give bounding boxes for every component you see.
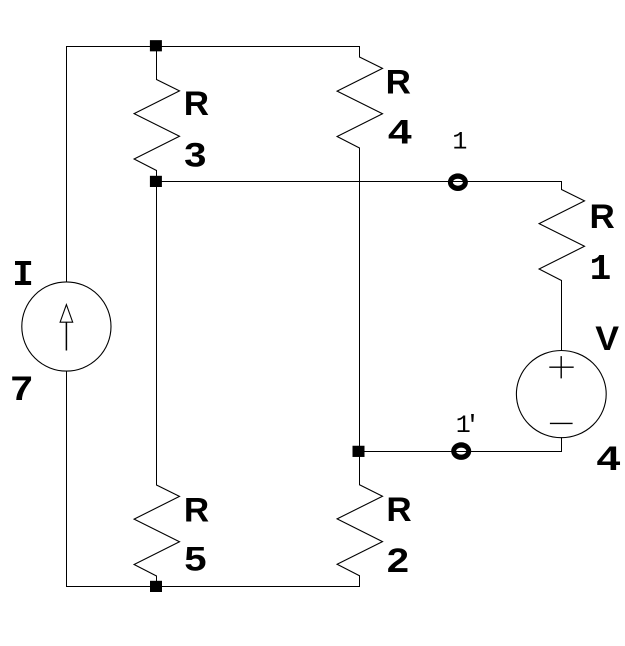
voltage source V4 circle bbox=[516, 351, 606, 438]
resistor R1 zigzag bbox=[539, 190, 584, 281]
svg-text:R: R bbox=[184, 492, 209, 529]
resistor R5 zigzag bbox=[134, 485, 179, 576]
wire top node (I7 / R3 / R4) bbox=[67, 46, 360, 48]
wire 1-prime node (R2 / terminal 1-prime / V4) bbox=[360, 451, 562, 453]
resistor R2 zigzag bbox=[337, 485, 382, 576]
resistor R4 bottom lead (crosses middle wire, no junction) bbox=[359, 148, 361, 452]
terminal 1-prime ring bbox=[451, 442, 471, 460]
svg-text:R: R bbox=[184, 86, 209, 123]
svg-text:1: 1 bbox=[452, 128, 467, 157]
svg-text:4: 4 bbox=[388, 113, 412, 151]
svg-text:1: 1 bbox=[590, 249, 612, 290]
wire left upper (I7 top lead) bbox=[66, 47, 68, 283]
junction node middle (R3/R5/wire) bbox=[150, 176, 162, 187]
svg-text:R: R bbox=[386, 491, 411, 528]
svg-text:3: 3 bbox=[184, 135, 206, 173]
junction node bottom (R5/bottom wire) bbox=[150, 581, 162, 592]
junction node top (I7/R3/R4) bbox=[150, 40, 162, 51]
junction node R2 top (R4/R2/1-prime wire) bbox=[353, 446, 365, 457]
resistor R2 top lead bbox=[359, 452, 361, 485]
svg-text:7: 7 bbox=[11, 369, 33, 407]
resistor R1 top lead bbox=[561, 182, 563, 190]
svg-text:V: V bbox=[595, 320, 620, 358]
current source I7 arrow head bbox=[60, 305, 73, 323]
resistor R4 zigzag bbox=[337, 57, 382, 148]
resistor R2 bottom lead bbox=[359, 576, 361, 587]
wire middle node (R3 / R5 / terminal 1 / R1) bbox=[157, 181, 562, 183]
voltage source V4 bottom lead bbox=[561, 438, 563, 452]
resistor R1 bottom lead bbox=[561, 281, 563, 351]
resistor R4 top lead bbox=[359, 47, 361, 58]
resistor R5 top lead bbox=[156, 182, 158, 486]
wire bottom node (I7 / R5 / R2) bbox=[67, 586, 360, 588]
svg-text:': ' bbox=[465, 411, 480, 440]
svg-text:R: R bbox=[386, 64, 411, 101]
svg-text:5: 5 bbox=[184, 539, 206, 577]
current source I7 circle bbox=[22, 282, 111, 371]
svg-text:R: R bbox=[590, 198, 615, 235]
resistor R3 bottom lead bbox=[156, 171, 158, 182]
resistor R3 zigzag bbox=[134, 80, 179, 171]
svg-text:I: I bbox=[12, 255, 34, 296]
wire left lower (I7 bottom lead) bbox=[66, 371, 68, 587]
resistor R3 top lead bbox=[156, 47, 158, 80]
svg-text:2: 2 bbox=[387, 541, 409, 579]
terminal 1 ring bbox=[448, 173, 468, 191]
current source I7 arrow shaft bbox=[65, 323, 67, 351]
resistor R5 bottom lead bbox=[156, 576, 158, 587]
voltage source V4 plus sign bbox=[549, 356, 573, 378]
svg-text:4: 4 bbox=[597, 440, 621, 478]
voltage source V4 minus sign bbox=[550, 422, 573, 424]
